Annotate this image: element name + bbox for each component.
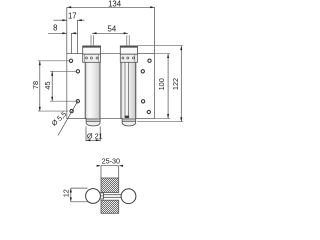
strap bar thin section [104, 195, 123, 198]
center leaf between barrels [100, 54, 121, 119]
door section upper (hatched) [101, 178, 119, 193]
svg-text:12: 12 [61, 189, 70, 197]
left collar holes [86, 57, 88, 59]
svg-text:78: 78 [31, 81, 40, 89]
dimension 25-30 [101, 166, 119, 178]
right barrel body [121, 54, 136, 119]
left barrel top cap [83, 46, 101, 54]
right leaf plate [136, 54, 155, 119]
svg-text:25-30: 25-30 [102, 157, 120, 166]
left barrel circle [86, 189, 101, 204]
right barrel top cap [120, 46, 137, 54]
dimension 100 line [167, 54, 169, 119]
dimension 78 line [39, 61, 41, 111]
dimension 17 [54, 20, 85, 53]
door section lower (hatched) [101, 200, 119, 213]
svg-text:122: 122 [171, 78, 180, 90]
right barrel circle [121, 189, 136, 204]
left barrel foot [86, 119, 100, 126]
left leaf plate [67, 54, 86, 119]
right cap dark band [120, 46, 138, 48]
left tension collar [83, 54, 101, 62]
dimension 12 [71, 188, 88, 202]
hole extension lines left [38, 61, 76, 111]
left plate screw hole 1 [69, 59, 72, 62]
dimension 122 line [180, 46, 182, 122]
right plate screw hole 2 [141, 70, 144, 73]
right plate screw hole 4 [147, 110, 150, 113]
left barrel body [85, 54, 100, 119]
left plate screw hole 4 [70, 109, 73, 112]
left cap dark band [83, 46, 101, 48]
left pin [91, 35, 93, 45]
right plate screw hole 1 [148, 59, 151, 62]
extension lines right [137, 46, 183, 122]
right collar holes [122, 57, 124, 59]
left plate screw hole 2 [76, 70, 79, 73]
dimension dia 21 [86, 127, 100, 142]
svg-text:Ø 21: Ø 21 [87, 131, 103, 140]
strap bar thick section [97, 193, 104, 199]
spring tension rod in right barrel [125, 62, 129, 118]
dimension 8 [48, 33, 77, 53]
dimension 45 line [51, 71, 53, 101]
left plate screw hole 3 [76, 100, 79, 103]
svg-text:Ø 5,5: Ø 5,5 [50, 110, 68, 128]
svg-text:45: 45 [43, 81, 52, 89]
right tension collar [120, 54, 137, 62]
dimension 134 [67, 7, 155, 53]
svg-text:100: 100 [157, 78, 166, 90]
right barrel foot [122, 119, 136, 126]
svg-text:17: 17 [68, 11, 77, 20]
dimension 54 [92, 32, 128, 34]
right plate screw hole 3 [141, 100, 144, 103]
svg-text:8: 8 [53, 23, 57, 32]
right pin [127, 35, 129, 45]
svg-text:134: 134 [108, 0, 122, 8]
svg-text:54: 54 [108, 24, 117, 33]
label dia 5.5 leader [58, 101, 78, 135]
